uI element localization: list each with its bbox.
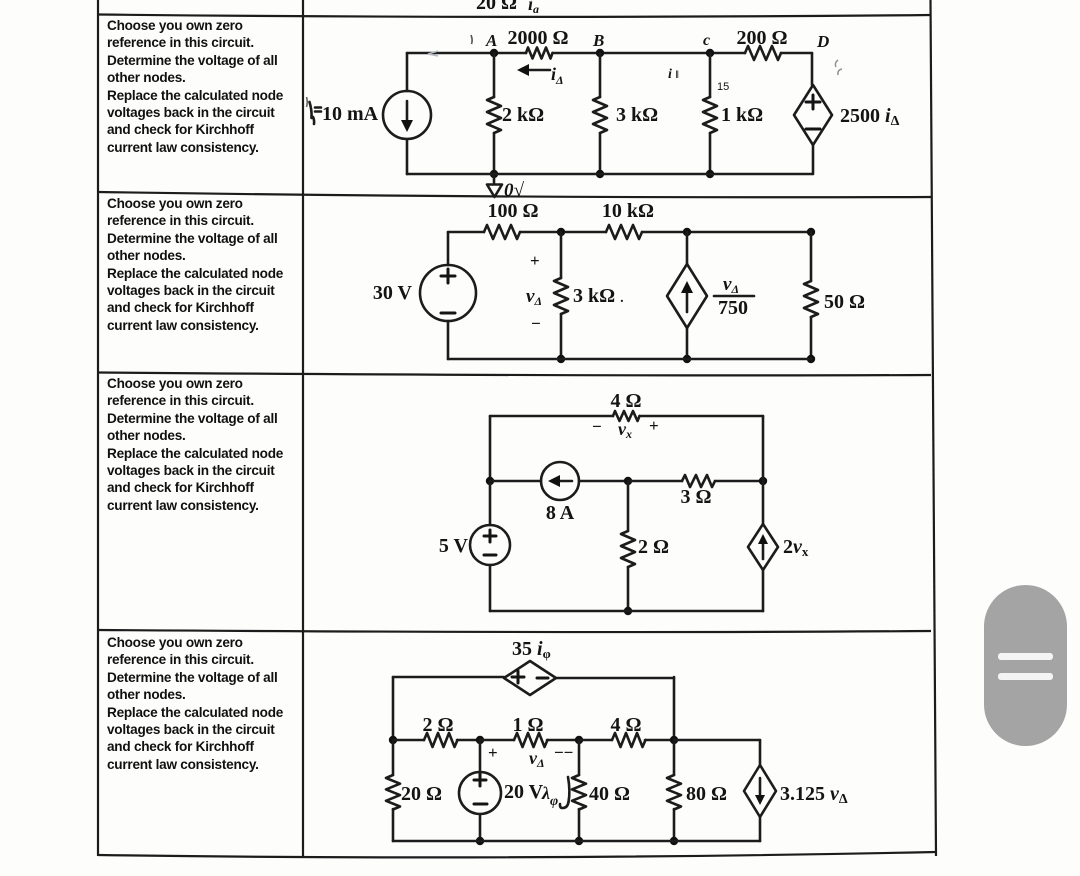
small tick before node A [471, 35, 472, 44]
arrow inside diamond [686, 289, 689, 312]
resistor 2 ohm [424, 733, 458, 747]
svg-text:2000 Ω: 2000 Ω [507, 27, 568, 49]
wire: diamond to bottom [812, 145, 815, 174]
wire: left mid to 5V [489, 481, 492, 525]
wire: 3k branch lower [599, 133, 602, 174]
resistor 1 kohm [703, 97, 717, 133]
wire: top left to 100 ohm [448, 231, 484, 234]
wire: top loop right [556, 677, 674, 680]
svg-text:vΔ: vΔ [526, 286, 542, 308]
wire: 2 ohm lower [627, 567, 630, 611]
table left border [97, 0, 99, 856]
wire: 1 ohm to node 3 [547, 739, 579, 742]
wire: 40 ohm lower [578, 809, 581, 841]
wire: 1k branch lower [709, 133, 712, 174]
dependent voltage source 35 i-phi diamond [504, 661, 556, 695]
wire: node 4 to right branch [674, 739, 760, 742]
wire: left branch lower [447, 321, 450, 359]
svg-text:100 Ω: 100 Ω [487, 200, 538, 222]
voltage source 20 V circle [459, 772, 501, 814]
svg-text:4 Ω: 4 Ω [610, 714, 641, 736]
wire: bottom rail [448, 358, 811, 361]
table row divider 3-4 [98, 630, 931, 632]
wire: bottom rail [393, 840, 760, 843]
svg-text:iΔ: iΔ [551, 64, 564, 87]
current source 10 mA circle [383, 91, 431, 139]
wire: 10k to right corner [642, 231, 811, 234]
resistor 3 kohm [593, 97, 607, 133]
resistor 10 kohm [606, 225, 642, 239]
svg-text:i ‖: i ‖ [668, 67, 679, 82]
arrow inside diamond pointing down [759, 778, 762, 798]
wire: right mid to diamond [762, 481, 765, 524]
wire: 2 ohm upper [627, 481, 630, 531]
node bottom middle [624, 607, 632, 615]
wire: 20V source upper [479, 740, 482, 772]
wire: top loop right vertical [673, 677, 676, 740]
svg-text:8 A: 8 A [546, 502, 575, 524]
svg-text:10 kΩ: 10 kΩ [602, 200, 654, 222]
node top of dep source [683, 228, 691, 236]
wire: bottom rail [407, 173, 812, 176]
pill line 1 [998, 653, 1053, 660]
label i1 = 10 mA (handwritten i1= then printed 10 mA) [310, 102, 312, 118]
svg-text:vΔ: vΔ [723, 274, 739, 296]
resistor 2 ohm [621, 531, 635, 567]
svg-text:1 Ω: 1 Ω [512, 714, 543, 736]
svg-text:+: + [530, 251, 540, 270]
wire: main left to 2 ohm [393, 739, 424, 742]
node top of 50 ohm [807, 228, 815, 236]
svg-text:20 V: 20 V [504, 781, 544, 803]
voltage source 5 V circle [470, 525, 510, 565]
node main left [389, 736, 397, 744]
resistor 200 ohm [745, 46, 781, 60]
svg-text:B: B [592, 31, 604, 50]
wire: dep source lower [686, 328, 689, 359]
wire: 50 ohm upper [810, 232, 813, 281]
svg-text:−−: −− [554, 743, 573, 762]
gray scroll pill button [984, 585, 1067, 746]
node at bottom of 2k [490, 170, 498, 178]
svg-text:20 Ω: 20 Ω [401, 783, 442, 805]
svg-text:200 Ω: 200 Ω [736, 27, 787, 49]
wire: left branch upper [447, 232, 450, 265]
svg-text:3.125 vΔ: 3.125 vΔ [780, 783, 848, 807]
pill line 2 [998, 673, 1053, 680]
svg-text:750: 750 [718, 297, 748, 319]
node bottom of 20V [476, 837, 484, 845]
faint eraser arrow on wire [428, 51, 438, 56]
table text column: row 3 instructions [107, 375, 297, 514]
svg-text:3 kΩ: 3 kΩ [616, 104, 658, 126]
table row divider 2-3 [98, 373, 931, 376]
wire: 80 ohm lower [673, 809, 676, 841]
table right border [931, 0, 937, 856]
wire: 100 ohm to 10k [520, 231, 606, 234]
plus sign in 5V [484, 530, 496, 542]
svg-text:λφ: λφ [541, 783, 558, 809]
wire: 3k branch upper [560, 232, 563, 278]
svg-text:4 Ω: 4 Ω [610, 390, 641, 412]
svg-text:10 mA: 10 mA [322, 103, 379, 125]
wire: right vertical top to mid [762, 416, 765, 481]
node main 2 [476, 736, 484, 744]
faint squiggle near D [835, 60, 842, 75]
wire: 2k branch upper [493, 53, 496, 97]
node bottom of dep source [683, 355, 691, 363]
table row divider 1-2 [98, 192, 931, 197]
wire: 3k branch upper [599, 53, 602, 97]
svg-text:40 Ω: 40 Ω [589, 783, 630, 805]
apostrophe mark near divider [306, 97, 309, 107]
wire: 80 ohm upper [673, 740, 676, 775]
resistor 40 ohm [572, 775, 586, 810]
voltage source 30 V circle [420, 265, 476, 321]
wire: 3 ohm to right node [715, 480, 763, 483]
svg-text:1 kΩ: 1 kΩ [721, 104, 763, 126]
resistor 50 ohm [804, 281, 818, 317]
svg-text:2vx: 2vx [783, 536, 809, 559]
node main 4 [670, 736, 678, 744]
table text column: row 4 instructions [107, 634, 297, 773]
table text column: row 1 instructions [107, 17, 297, 156]
annotation arrow i_D [526, 69, 550, 72]
wire: 40 ohm upper [578, 740, 581, 775]
resistor 2000 ohm [526, 48, 553, 59]
wire: middle node to 3 ohm [628, 480, 682, 483]
dependent current source 2vx diamond [748, 524, 778, 570]
minus sign in 20V [474, 803, 487, 806]
svg-text:2 Ω: 2 Ω [422, 714, 453, 736]
minus sign inside diamond [537, 677, 548, 680]
resistor 20 ohm [386, 775, 400, 810]
svg-text:80 Ω: 80 Ω [686, 783, 727, 805]
svg-text:30 V: 30 V [373, 282, 413, 304]
node middle [624, 477, 632, 485]
node bottom of 40 ohm [575, 837, 583, 845]
svg-text:2500 iΔ: 2500 iΔ [840, 105, 900, 129]
wire: 3k branch lower [560, 314, 563, 359]
wire: mid left to 8A source [490, 480, 541, 483]
plus sign in 20V [474, 774, 486, 786]
svg-text:3 Ω: 3 Ω [680, 486, 711, 508]
wire: 2 ohm to node 2 [457, 739, 480, 742]
svg-text:c: c [703, 32, 710, 49]
wire: 50 ohm lower [810, 317, 813, 359]
resistor 80 ohm [667, 775, 681, 810]
node bottom of 80 ohm [670, 837, 678, 845]
table text column: row 2 instructions [107, 195, 297, 334]
svg-text:20 Ω: 20 Ω [476, 0, 517, 14]
table bottom border [98, 852, 936, 857]
wire: right branch lower [759, 817, 762, 841]
wire: top rail right of 4 ohm [640, 415, 764, 418]
wire: top loop left vertical [392, 677, 395, 740]
wire: 1k branch upper [709, 53, 712, 97]
svg-text:ia: ia [528, 0, 539, 16]
wire: top rail left of 4 ohm [490, 415, 613, 418]
wire: 4 ohm to node 4 [645, 739, 674, 742]
svg-text:−: − [592, 417, 602, 436]
wire: 20 ohm lower [392, 809, 395, 841]
minus sign inside diamond [806, 128, 820, 131]
node at bottom of 3k [596, 170, 604, 178]
arrow inside 2vx diamond [762, 541, 765, 559]
table column divider [302, 0, 304, 856]
resistor 2 kohm [487, 97, 501, 133]
dependent current source v-delta/750 diamond [667, 264, 707, 328]
svg-text:2 Ω: 2 Ω [638, 536, 669, 558]
plus sign in 30V [441, 269, 455, 283]
dependent voltage source 2500 i-delta diamond [794, 85, 832, 145]
wire: top left segment source to node A [407, 52, 526, 55]
wire: dep source upper [686, 232, 689, 264]
ground symbol 0V [487, 174, 502, 197]
wire: 20 ohm upper [392, 740, 395, 775]
wire: left branch upper [406, 53, 409, 91]
svg-text:2 kΩ: 2 kΩ [502, 104, 544, 126]
svg-text:15: 15 [717, 81, 729, 93]
current source 8 A circle [541, 462, 579, 500]
node C [706, 49, 714, 57]
node bottom of 3k [557, 355, 565, 363]
resistor 4 ohm [613, 411, 640, 421]
resistor 3 ohm [682, 475, 715, 487]
dependent current source 3.125 v-delta diamond [744, 765, 776, 817]
svg-text:3 kΩ .: 3 kΩ . [573, 285, 624, 307]
resistor 3 kohm [554, 278, 568, 314]
minus sign in 30V [441, 312, 455, 315]
node main 3 [575, 736, 583, 744]
svg-text:A: A [485, 31, 497, 50]
wire: node 2 to 1 ohm [480, 739, 514, 742]
node at bottom of 1k [706, 170, 714, 178]
wire: 8A to middle node [579, 480, 628, 483]
wire: 20V to bottom [479, 814, 482, 841]
table top row divider [98, 15, 931, 17]
svg-text:35 iφ: 35 iφ [512, 638, 551, 661]
svg-text:D: D [816, 32, 829, 51]
8 A arrow [557, 480, 572, 483]
svg-text:0√: 0√ [504, 180, 525, 201]
current source 10 mA arrow [406, 101, 409, 122]
svg-text:+: + [649, 416, 659, 435]
resistor 1 ohm [514, 733, 548, 747]
wire: 200 ohm to node D [781, 52, 812, 55]
wire: left vertical top to mid [489, 416, 492, 481]
wire: left branch lower [406, 139, 409, 174]
wire: node B to node C [553, 52, 746, 55]
resistor 100 ohm [484, 225, 520, 239]
node B [596, 49, 604, 57]
node top of 3k [557, 228, 565, 236]
wire: bottom rail [490, 610, 763, 613]
wire: diamond to bottom [762, 570, 765, 611]
svg-text:5 V: 5 V [439, 535, 469, 557]
wire: node D branch upper [811, 53, 814, 85]
plus sign inside diamond [806, 95, 820, 109]
wire: 2k branch lower [493, 133, 496, 174]
node mid right [759, 477, 767, 485]
wire: right branch upper [759, 740, 762, 765]
svg-text:vΔ: vΔ [529, 748, 545, 770]
wire: node 3 to 4 ohm [579, 739, 612, 742]
plus sign inside diamond [512, 671, 524, 683]
wire: 5V to bottom [489, 565, 492, 611]
minus sign in 5V [484, 554, 496, 557]
wire: top loop left [393, 676, 504, 679]
svg-text:50 Ω: 50 Ω [824, 291, 865, 313]
svg-text:vx: vx [618, 419, 632, 441]
node bottom of 50 ohm [807, 355, 815, 363]
resistor 4 ohm [612, 733, 646, 747]
svg-text:+: + [488, 743, 498, 762]
node mid left [486, 477, 494, 485]
node A [490, 49, 498, 57]
svg-text:−: − [531, 314, 541, 333]
